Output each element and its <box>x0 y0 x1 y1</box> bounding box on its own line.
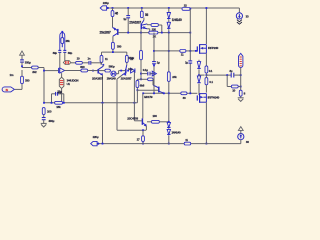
junction bus right corner <box>189 32 191 34</box>
transistor Q2 2SA1837 bar <box>140 24 142 30</box>
junction Q4base arrow <box>127 70 129 72</box>
label 220 mirror <box>152 27 157 31</box>
wire R330 in leads <box>15 70 22 89</box>
resistor R0.1 top <box>205 66 208 73</box>
svg-text:2SA1837: 2SA1837 <box>92 77 103 81</box>
wire right loop vertical <box>189 9 191 33</box>
label Q1 2Sa1837 <box>100 31 111 35</box>
transistor BD179 bar <box>158 87 160 93</box>
ground fb <box>41 123 47 127</box>
label 11 ltp <box>105 57 108 61</box>
svg-text:39p: 39p <box>68 51 73 55</box>
wire jog to R10k <box>137 79 141 80</box>
svg-text:3µ: 3µ <box>229 69 232 73</box>
label 1u x190 <box>185 61 188 65</box>
label 1K mirror <box>153 35 157 39</box>
label 0.1u vas <box>143 68 148 72</box>
wire D4 to rail <box>168 135 170 144</box>
power source V2 -33 <box>238 134 244 144</box>
wire R2k2 right <box>38 68 44 103</box>
capacitor C3u out <box>231 73 234 78</box>
wire y79 stub <box>141 78 148 80</box>
wire BD179 base <box>137 89 158 91</box>
wire C1n right <box>91 63 101 65</box>
label 46 <box>115 12 119 16</box>
wire caps down <box>60 52 65 68</box>
label Q2 2SA1837 <box>129 21 141 25</box>
resistor R56 lead <box>142 8 144 20</box>
svg-text:220µ: 220µ <box>103 1 109 5</box>
resistor R2k2 <box>32 66 39 69</box>
wire Q2base-R150k <box>140 33 142 51</box>
wire M1 drain <box>206 7 208 44</box>
svg-text:BD179: BD179 <box>144 95 153 99</box>
diode Dg2 <box>197 75 200 95</box>
wire output <box>206 74 231 76</box>
svg-text:100: 100 <box>152 114 157 118</box>
svg-text:1µ: 1µ <box>123 17 126 21</box>
svg-text:46k: 46k <box>65 39 70 43</box>
transistor Q4 bar <box>125 69 127 74</box>
capacitor C 1u <box>126 16 130 18</box>
transistor Q1 2SA1837 bar <box>117 29 119 35</box>
svg-text:1µ: 1µ <box>157 61 160 65</box>
label 100 drv <box>152 114 157 118</box>
label 100 fb <box>47 109 52 113</box>
wire fb corner up <box>136 90 138 103</box>
label 1u <box>123 17 126 21</box>
label 560p <box>109 64 115 68</box>
junction rail R46 <box>112 7 114 9</box>
resistor R22 ltp <box>125 55 128 62</box>
junction x190 gate <box>189 50 191 52</box>
wire D2 to bus <box>168 29 170 32</box>
svg-text:39p: 39p <box>53 51 58 55</box>
junction gate 196 <box>195 50 197 52</box>
resistor R46k src <box>61 33 64 48</box>
label 330 Q1 <box>117 45 122 49</box>
svg-text:16k: 16k <box>56 105 61 109</box>
arrow V2 top triangle <box>238 127 243 134</box>
label IRFP240 <box>208 46 219 50</box>
wire Q3e to rail <box>102 103 104 145</box>
wire L to load <box>240 75 242 90</box>
capacitor C1u x190 <box>188 61 192 63</box>
wire R10k down <box>137 88 139 92</box>
junction bus 1u <box>127 32 129 34</box>
transistor Q1 leads <box>113 27 118 42</box>
junction gate2 154 <box>153 92 155 94</box>
label 10 zobel <box>232 89 235 93</box>
capacitor C39p left <box>58 50 61 52</box>
wire R820 right <box>88 70 98 72</box>
wire diode chain top <box>168 8 170 13</box>
diode D560 circle <box>111 71 116 76</box>
svg-text:820: 820 <box>80 65 85 69</box>
resistor R16k <box>55 101 63 104</box>
wire fb to buffer <box>43 70 58 72</box>
resistor small y79 <box>148 78 153 81</box>
connector 220u bottom <box>91 141 100 145</box>
transistor Q2 leads <box>141 20 150 32</box>
label 3u out <box>229 69 232 73</box>
junction x154 y51 <box>153 50 155 52</box>
capacitor C 1u lead <box>127 8 129 33</box>
svg-text:IRFP9240: IRFP9240 <box>208 95 220 99</box>
wire R100drv leads <box>147 121 169 123</box>
wire Q5 col <box>142 93 144 118</box>
junction gate2 190 <box>189 92 191 94</box>
junction bus-in Q3 <box>92 70 94 72</box>
mosfet M1 IRFP240 <box>197 44 206 54</box>
label 220u top <box>103 1 109 5</box>
wire R24k down <box>168 81 170 93</box>
capacitor C400u <box>42 118 46 120</box>
label 17 <box>137 138 140 142</box>
junction gate2 BD <box>163 92 165 94</box>
wire Q3 base <box>93 70 98 72</box>
label 33 gate2 <box>183 96 186 100</box>
diode Dg1 <box>197 60 200 76</box>
connector arrow Q4base <box>131 68 135 73</box>
label 23p <box>57 89 62 93</box>
wire diode to out <box>199 74 205 76</box>
svg-text:0.1: 0.1 <box>209 80 213 84</box>
svg-text:IN: IN <box>6 88 9 92</box>
wire Q4e corner <box>117 129 146 131</box>
junction bus diode <box>168 32 170 34</box>
label 344UDGN <box>67 79 79 83</box>
svg-text:2Sa1837: 2Sa1837 <box>100 31 111 35</box>
resistor R100 fb <box>42 108 45 115</box>
source U1 battery <box>59 73 64 104</box>
label 0.1 bot <box>209 80 213 84</box>
label 24k <box>172 75 177 79</box>
resistor R330 in <box>21 76 24 84</box>
svg-text:56: 56 <box>145 13 149 17</box>
wire C400u down <box>43 120 45 124</box>
wire x168 low <box>168 93 170 122</box>
wire R01t to out <box>206 73 208 76</box>
wire zobel right <box>238 86 241 88</box>
label 33 V1 <box>246 15 249 19</box>
zobel left <box>227 75 231 86</box>
capacitor C01u vas <box>141 72 155 76</box>
power source V1 33V <box>236 13 242 19</box>
connector 220u top-left <box>100 6 109 10</box>
wire +rail top <box>107 7 240 9</box>
svg-text:1N4140: 1N4140 <box>171 130 181 134</box>
diode D4 low <box>167 129 170 134</box>
resistor R56 <box>140 11 143 18</box>
resistor R11 gate <box>180 50 186 53</box>
label 330 in <box>25 78 30 82</box>
junction rail 1u cap <box>127 7 129 9</box>
label 2k2 <box>32 70 37 74</box>
wire C330u down <box>21 62 23 67</box>
capacitor C560p <box>105 69 110 72</box>
wire load down <box>240 96 242 98</box>
transistor BD179 leads <box>153 85 164 94</box>
wire fb line <box>43 102 137 104</box>
label 220u bottom <box>93 135 99 139</box>
wire M1 source <box>205 53 207 66</box>
svg-text:330µ: 330µ <box>25 60 31 64</box>
svg-text:1m: 1m <box>10 73 14 77</box>
label 39p right <box>68 51 73 55</box>
wire x154 <box>153 33 155 94</box>
resistor R33 gate2 <box>181 92 187 95</box>
svg-text:0.1µ: 0.1µ <box>143 68 148 72</box>
wire bottom rail <box>98 143 241 145</box>
resistor R8 load <box>239 90 242 96</box>
wire R01b to M2 <box>205 85 207 93</box>
label BD179 <box>144 95 153 99</box>
ground load <box>238 98 244 102</box>
label -33v <box>57 91 62 95</box>
svg-text:IRFP240: IRFP240 <box>208 46 219 50</box>
resistor R10 in <box>76 61 83 64</box>
svg-text:1n: 1n <box>87 56 90 60</box>
wire R22 to Q4 <box>126 62 128 64</box>
wire rail corner to V1 <box>238 8 240 13</box>
wire LTP top rail <box>102 51 127 55</box>
svg-text:560p: 560p <box>109 64 115 68</box>
wire gate bus M2 <box>143 92 197 94</box>
resistor R22 rail <box>182 8 190 11</box>
capacitor C23p loop <box>51 94 65 104</box>
label Q4 2SA1837 <box>121 77 132 81</box>
wire R11 to Q3 <box>102 62 105 66</box>
svg-text:1N4140: 1N4140 <box>172 18 182 22</box>
resistor R17 <box>142 130 145 144</box>
svg-text:1µ: 1µ <box>185 61 188 65</box>
wire to R2k2 <box>22 67 32 69</box>
svg-text:100: 100 <box>47 109 52 113</box>
svg-text:23p: 23p <box>57 89 62 93</box>
ground V1 double chevron <box>237 20 242 25</box>
svg-text:2SC4793: 2SC4793 <box>127 116 138 120</box>
diode D2 top <box>167 22 170 28</box>
label 8 load <box>244 92 246 96</box>
arch source structure <box>60 33 65 51</box>
wire out to R01b <box>205 75 207 78</box>
transistor Q3 leads <box>98 66 103 103</box>
wire meter to R10 <box>71 62 76 64</box>
resistor R330 Q1 lead <box>112 49 114 52</box>
transistor Q5 leads <box>134 121 146 130</box>
label 10k drv <box>140 84 145 88</box>
svg-text:330: 330 <box>117 45 122 49</box>
svg-text:6k8: 6k8 <box>140 84 145 88</box>
resistor R11 rail <box>184 142 191 145</box>
label 33 V2 <box>246 140 249 144</box>
resistor R330 Q1 <box>112 42 115 49</box>
transistor Q4 leads <box>117 65 127 130</box>
wire gate bus M1 <box>154 50 197 52</box>
wire D560 to Q4base <box>116 70 125 74</box>
transistor Q5 bar <box>141 118 143 124</box>
label 39p left <box>53 51 58 55</box>
junction bus 220bend <box>161 32 163 34</box>
capacitor C39p right <box>63 50 66 52</box>
label 1N4140 top <box>172 18 182 22</box>
label 1m <box>10 73 14 77</box>
svg-text:220µ: 220µ <box>93 135 99 139</box>
svg-text:330: 330 <box>25 78 30 82</box>
wire y79 corner <box>152 79 154 85</box>
wire D1-D2 <box>168 20 170 23</box>
svg-text:150k: 150k <box>128 56 134 60</box>
junction x168 gate <box>168 50 170 52</box>
resistor R100 drv <box>151 120 159 123</box>
wire x190 <box>189 33 191 94</box>
label 400u <box>48 119 54 123</box>
label 16k <box>56 105 61 109</box>
resistor R46 <box>111 11 114 17</box>
resistor R24k <box>167 72 170 82</box>
label 22 ltp <box>130 57 133 61</box>
svg-text:2SA1837: 2SA1837 <box>129 21 141 25</box>
junction bus x154 <box>153 32 155 34</box>
resistor R1k mirror <box>149 31 158 34</box>
label 1u x154 <box>157 61 160 65</box>
label Q5 2SC4793 <box>127 116 138 120</box>
capacitor C23p <box>56 92 58 96</box>
label Q3 2SA1837 <box>92 77 103 81</box>
svg-text:400µ: 400µ <box>48 119 54 123</box>
label 0.1 top <box>209 69 213 73</box>
diode D3 low <box>167 122 170 127</box>
resistor R0.1 bot <box>205 78 208 85</box>
connector arrow x154 <box>152 71 156 76</box>
junction rail 22 right <box>189 8 191 10</box>
resistor R10 zobel <box>231 85 238 88</box>
junction gate2 Q5c <box>142 92 144 94</box>
resistor R150k <box>140 50 143 59</box>
label 150k <box>128 56 134 60</box>
resistor R11 ltp <box>100 55 103 62</box>
inductor L1 red <box>239 53 243 75</box>
wire R10 to C1n <box>82 62 89 64</box>
capacitor C1u x154 <box>152 62 156 64</box>
wire x168 bus-gate <box>168 33 170 72</box>
junction rail R56 <box>141 7 143 9</box>
wire 560p branch <box>99 70 111 72</box>
battery red horizontal <box>63 61 71 65</box>
antenna input top <box>20 51 25 60</box>
label 820 <box>80 65 85 69</box>
svg-text:24k: 24k <box>172 75 177 79</box>
label 0.1u q4 <box>128 67 133 71</box>
resistor R10k drv <box>136 80 139 87</box>
svg-text:0.1: 0.1 <box>209 69 213 73</box>
port IN oval <box>2 87 14 92</box>
resistor R220 mirror <box>151 24 158 27</box>
capacitor C1n <box>89 61 91 65</box>
mosfet M2 IRFP9240 <box>197 93 206 103</box>
label 11 rail <box>185 138 188 142</box>
label 46k src <box>65 39 70 43</box>
transistor Q3 bar <box>97 69 99 74</box>
svg-text:46: 46 <box>115 12 119 16</box>
node dot src top <box>61 31 63 33</box>
wire R150k down <box>140 60 142 80</box>
wire Q4tri down <box>133 71 135 121</box>
label 1N4140 ltp <box>107 77 117 81</box>
label 1N4140 low <box>171 130 181 134</box>
resistor R46 lead <box>112 8 114 27</box>
label 330u <box>25 60 31 64</box>
wire cap to L <box>234 74 242 76</box>
label 11 gate <box>181 53 184 57</box>
wire R220 right bend <box>158 25 161 33</box>
wire D3-D4 <box>168 128 170 129</box>
wire buffer out <box>65 70 81 72</box>
wire base bus <box>118 32 190 34</box>
wire Q2 base down <box>140 29 142 32</box>
label 1n <box>87 56 90 60</box>
junction bus Q2base <box>140 32 142 34</box>
junction rail diode chain <box>168 7 170 9</box>
label IRFP9240 <box>208 95 220 99</box>
label U1 <box>67 82 71 86</box>
svg-text:1N4140: 1N4140 <box>107 77 117 81</box>
capacitor C330u <box>20 60 24 62</box>
wire R100 lead <box>43 115 45 118</box>
junction gate2 168 <box>168 92 170 94</box>
resistor R820 <box>81 69 88 72</box>
junction x154 065 <box>153 65 155 67</box>
wire M2 source down <box>206 102 208 144</box>
label 10 in <box>77 56 80 60</box>
buffer triangle in <box>59 68 65 73</box>
svg-text:2k2: 2k2 <box>32 70 37 74</box>
svg-text:2SA1837: 2SA1837 <box>121 77 132 81</box>
label 22 rail <box>184 4 187 8</box>
label 56 <box>145 13 149 17</box>
diode D1 top <box>167 13 170 19</box>
